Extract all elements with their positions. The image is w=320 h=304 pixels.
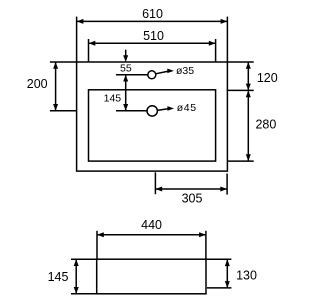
- svg-text:55: 55: [120, 62, 132, 74]
- svg-text:200: 200: [27, 77, 48, 91]
- svg-text:ø45: ø45: [177, 102, 197, 114]
- svg-text:120: 120: [257, 71, 278, 85]
- svg-text:610: 610: [142, 7, 163, 21]
- svg-text:305: 305: [182, 191, 203, 205]
- svg-text:145: 145: [104, 92, 122, 104]
- svg-text:ø35: ø35: [176, 65, 194, 77]
- svg-text:130: 130: [236, 269, 257, 283]
- svg-text:145: 145: [48, 270, 69, 284]
- svg-text:280: 280: [255, 117, 276, 131]
- svg-text:510: 510: [143, 29, 164, 43]
- svg-text:440: 440: [141, 218, 162, 232]
